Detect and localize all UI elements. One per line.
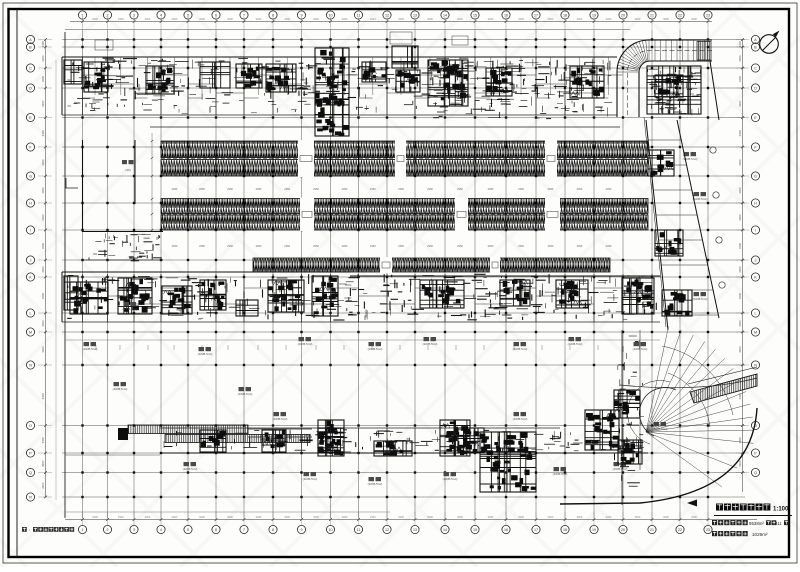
svg-text:(30): (30)	[125, 168, 130, 172]
fan strip core F2	[618, 440, 642, 464]
svg-text:2350: 2350	[518, 187, 524, 191]
svg-text:(1035.5m²): (1035.5m²)	[693, 197, 708, 201]
svg-text:2350: 2350	[577, 244, 583, 248]
svg-text:3300: 3300	[370, 515, 376, 519]
core B9	[556, 280, 588, 308]
svg-text:13: 13	[413, 528, 417, 532]
subtitle line 2	[712, 531, 748, 536]
svg-text:3300: 3300	[41, 292, 45, 299]
svg-text:5: 5	[187, 14, 189, 18]
svg-text:3300: 3300	[284, 17, 290, 21]
svg-text:C: C	[29, 67, 32, 71]
svg-text:3300: 3300	[691, 515, 697, 519]
svg-text:1: 1	[82, 528, 84, 532]
right slanted band	[644, 61, 719, 330]
fan strip clutter	[614, 336, 644, 486]
svg-text:2350: 2350	[342, 187, 348, 191]
svg-text:8: 8	[272, 14, 274, 18]
svg-text:(1035.5m²): (1035.5m²)	[513, 417, 528, 421]
svg-text::: :	[29, 527, 30, 532]
binding margin line	[16, 9, 18, 557]
svg-text:2350: 2350	[284, 244, 290, 248]
svg-text:C: C	[754, 67, 757, 71]
svg-text:3300: 3300	[92, 17, 98, 21]
svg-text:M: M	[754, 331, 757, 335]
svg-text:16: 16	[504, 528, 508, 532]
middle strip wall clutter	[65, 274, 656, 320]
svg-text:3300: 3300	[41, 187, 45, 194]
room labels	[83, 152, 708, 486]
plan left edge wall	[64, 32, 66, 518]
svg-text:21: 21	[650, 14, 654, 18]
core B8	[500, 280, 530, 306]
svg-text:L: L	[755, 312, 757, 316]
svg-text:3300: 3300	[635, 515, 641, 519]
stair core A2	[146, 66, 174, 94]
svg-text:3300: 3300	[256, 515, 262, 519]
svg-text:Q: Q	[754, 471, 757, 475]
svg-text:3300: 3300	[118, 17, 124, 21]
svg-text:3300: 3300	[41, 100, 45, 107]
bottom strip outline	[160, 428, 648, 453]
svg-text:1029m²: 1029m²	[752, 532, 768, 537]
svg-text:J: J	[755, 259, 757, 263]
svg-text:12: 12	[385, 14, 389, 18]
svg-text:3300: 3300	[457, 17, 463, 21]
svg-text:3300: 3300	[41, 266, 45, 273]
svg-text:3300: 3300	[41, 320, 45, 327]
svg-text:3300: 3300	[427, 17, 433, 21]
unit rooms A3b	[236, 64, 262, 88]
small core C1	[318, 420, 344, 456]
fan room label	[122, 160, 134, 172]
svg-text:2350: 2350	[606, 187, 612, 191]
bottom core D3	[318, 428, 344, 452]
unit rooms A6b	[396, 70, 420, 92]
svg-text:3300: 3300	[256, 17, 262, 21]
svg-text:(1035.5m²): (1035.5m²)	[693, 297, 708, 301]
svg-text:6: 6	[215, 528, 217, 532]
fan room walls	[83, 140, 164, 232]
north arrow	[760, 31, 780, 54]
parking band gaps	[298, 140, 560, 273]
svg-text:(1035.5m²): (1035.5m²)	[113, 387, 128, 391]
parking row 2a	[161, 199, 648, 214]
parking row 1a	[161, 141, 648, 158]
top strip unit partitions	[83, 57, 624, 115]
svg-text:3300: 3300	[577, 17, 583, 21]
svg-text:19: 19	[592, 14, 596, 18]
svg-text:3300: 3300	[227, 515, 233, 519]
svg-text:3300: 3300	[606, 17, 612, 21]
svg-text:(1035.5m²): (1035.5m²)	[553, 472, 568, 476]
middle strip outline	[62, 272, 660, 322]
svg-text:2350: 2350	[398, 244, 404, 248]
bottom core D4	[458, 428, 484, 452]
svg-text:2350: 2350	[577, 187, 583, 191]
svg-text:3300: 3300	[738, 75, 742, 82]
outer road curve	[560, 408, 757, 507]
svg-text:3300: 3300	[738, 393, 742, 400]
grid bubbles right	[751, 35, 759, 476]
small core C3	[440, 420, 470, 456]
svg-text:3300: 3300	[41, 346, 45, 353]
small rooms above strip	[95, 32, 468, 50]
top dimension line	[65, 17, 712, 30]
svg-text:22: 22	[678, 528, 682, 532]
svg-text:18: 18	[563, 14, 567, 18]
stair core A4	[266, 64, 296, 92]
svg-text:H: H	[754, 202, 757, 206]
svg-text:6: 6	[215, 14, 217, 18]
svg-text:3300: 3300	[518, 515, 524, 519]
svg-text:3300: 3300	[738, 242, 742, 249]
svg-text:3300: 3300	[41, 41, 45, 48]
subtitle line 1	[712, 520, 748, 525]
svg-text:(1035.5m²): (1035.5m²)	[653, 427, 668, 431]
svg-text:3300: 3300	[145, 515, 151, 519]
svg-text:I: I	[755, 229, 756, 233]
svg-text:9: 9	[301, 14, 303, 18]
svg-text:23: 23	[706, 14, 710, 18]
parking row 1b	[161, 160, 648, 177]
core B7	[420, 280, 464, 308]
right band bubbles	[710, 147, 725, 288]
svg-text:3300: 3300	[635, 17, 641, 21]
parking dimension text rows	[172, 187, 612, 248]
svg-text:3300: 3300	[738, 130, 742, 137]
grid bubbles left	[26, 35, 34, 501]
parking row 3	[253, 258, 610, 272]
svg-text:2: 2	[107, 528, 109, 532]
top right inner core	[655, 75, 683, 97]
svg-text:3300: 3300	[398, 17, 404, 21]
top right block rooms	[647, 66, 701, 114]
middle strip partitions	[83, 274, 653, 322]
fan concentric arc segments	[662, 346, 733, 427]
svg-text:3300: 3300	[41, 482, 45, 489]
svg-text:3300: 3300	[199, 515, 205, 519]
unit rooms A5	[362, 62, 386, 82]
svg-text:3: 3	[133, 14, 135, 18]
svg-text:2350: 2350	[199, 187, 205, 191]
central tower	[315, 48, 349, 136]
small rooms C5	[236, 300, 258, 316]
svg-text:3300: 3300	[41, 214, 45, 221]
svg-text:M: M	[29, 331, 32, 335]
svg-text:2350: 2350	[457, 244, 463, 248]
svg-text:2350: 2350	[313, 244, 319, 248]
svg-text:17: 17	[534, 528, 538, 532]
svg-text:2350: 2350	[227, 187, 233, 191]
svg-text:3300: 3300	[172, 515, 178, 519]
fan long radials to corner	[646, 432, 737, 487]
svg-text:23: 23	[706, 528, 710, 532]
stair core A1	[84, 62, 108, 92]
svg-text:2350: 2350	[548, 244, 554, 248]
right band rooms	[648, 140, 718, 315]
svg-text:3300: 3300	[738, 266, 742, 273]
svg-text:3300: 3300	[738, 55, 742, 62]
core B6	[312, 276, 338, 316]
svg-text:(1035.5m²): (1035.5m²)	[83, 347, 98, 351]
left dimension line	[38, 38, 56, 500]
fan radial lines	[646, 326, 754, 443]
svg-text:2350: 2350	[256, 244, 262, 248]
svg-text:(1035.5m²): (1035.5m²)	[443, 477, 458, 481]
svg-text:311: 311	[775, 521, 782, 526]
svg-text:19: 19	[592, 528, 596, 532]
svg-text:2350: 2350	[548, 187, 554, 191]
svg-text:5: 5	[187, 528, 189, 532]
svg-text:9: 9	[301, 528, 303, 532]
small core C2	[374, 441, 412, 456]
svg-text:(1035.5m²): (1035.5m²)	[123, 307, 138, 311]
svg-text:N: N	[29, 364, 32, 368]
bottom dimension line	[65, 512, 757, 525]
top strip right wall clutter	[430, 61, 610, 119]
parking row 2b	[161, 215, 648, 230]
svg-text:21: 21	[650, 528, 654, 532]
svg-text:3300: 3300	[606, 515, 612, 519]
svg-text:G: G	[754, 175, 757, 179]
svg-text:18: 18	[563, 528, 567, 532]
svg-text:3300: 3300	[577, 515, 583, 519]
svg-text:(1035.5m²): (1035.5m²)	[613, 467, 628, 471]
svg-text:20: 20	[621, 528, 625, 532]
grid bubbles top	[78, 11, 712, 19]
right dimension line	[736, 38, 749, 492]
svg-text:2350: 2350	[606, 244, 612, 248]
svg-text:2350: 2350	[172, 244, 178, 248]
unit rooms A3	[200, 62, 230, 88]
svg-text:3300: 3300	[145, 17, 151, 21]
svg-text:3300: 3300	[227, 17, 233, 21]
svg-text:2350: 2350	[398, 187, 404, 191]
svg-text:4: 4	[160, 14, 162, 18]
small core C4	[585, 410, 619, 450]
svg-text:Q: Q	[29, 471, 32, 475]
curve hatch rungs	[617, 40, 705, 72]
top strip wall clutter	[63, 58, 611, 100]
svg-text:2350: 2350	[199, 244, 205, 248]
svg-text:3300: 3300	[41, 460, 45, 467]
bottom strip wall clutter	[164, 430, 641, 452]
svg-text:(1035.5m²): (1035.5m²)	[513, 347, 528, 351]
svg-text:14: 14	[443, 528, 447, 532]
svg-text:3300: 3300	[738, 214, 742, 221]
entry block A6	[392, 46, 418, 68]
svg-text:3300: 3300	[199, 17, 205, 21]
svg-text:3300: 3300	[92, 515, 98, 519]
core B5	[268, 280, 304, 312]
svg-text:3300: 3300	[41, 242, 45, 249]
bottom core D1	[200, 430, 226, 452]
svg-text:3300: 3300	[738, 346, 742, 353]
long staircase ramp	[118, 425, 312, 443]
svg-text:D: D	[29, 87, 32, 91]
svg-text:J: J	[30, 259, 32, 263]
svg-text:2350: 2350	[488, 244, 494, 248]
svg-text:G: G	[29, 175, 32, 179]
core B10	[622, 278, 654, 314]
grid bubbles bottom	[78, 525, 712, 533]
svg-text:2350: 2350	[172, 187, 178, 191]
svg-text:3300: 3300	[738, 100, 742, 107]
svg-text:2350: 2350	[427, 187, 433, 191]
svg-text:D: D	[754, 87, 757, 91]
svg-text:1: 1	[82, 14, 84, 18]
core B1	[70, 282, 108, 314]
svg-text:H: H	[29, 202, 32, 206]
svg-text:3300: 3300	[548, 515, 554, 519]
svg-text:3300: 3300	[370, 17, 376, 21]
svg-text:3300: 3300	[738, 41, 742, 48]
svg-text:R: R	[29, 496, 32, 500]
svg-text:3300: 3300	[41, 393, 45, 400]
svg-text:22: 22	[678, 14, 682, 18]
svg-text:3300: 3300	[738, 437, 742, 444]
svg-text:3300: 3300	[427, 515, 433, 519]
svg-text:3300: 3300	[118, 515, 124, 519]
stair core A9	[570, 66, 604, 98]
top building strip outline	[62, 57, 620, 127]
svg-text:2: 2	[107, 14, 109, 18]
svg-text:10: 10	[329, 528, 333, 532]
fan strip core F1	[614, 390, 640, 418]
right band core E1	[648, 150, 674, 176]
svg-text:(1035.5m²): (1035.5m²)	[303, 477, 318, 481]
svg-text:3300: 3300	[41, 55, 45, 62]
svg-text:3300: 3300	[738, 159, 742, 166]
svg-text:2350: 2350	[518, 244, 524, 248]
svg-text:2350: 2350	[457, 187, 463, 191]
svg-text:3: 3	[133, 528, 135, 532]
svg-text:3300: 3300	[41, 437, 45, 444]
core B4	[200, 280, 226, 310]
svg-text:3300: 3300	[398, 515, 404, 519]
svg-text:2350: 2350	[342, 244, 348, 248]
svg-text:3300: 3300	[41, 75, 45, 82]
svg-text:1:100: 1:100	[773, 507, 789, 513]
svg-text:14: 14	[443, 14, 447, 18]
column grid lines	[62, 30, 745, 518]
svg-text:3300: 3300	[663, 515, 669, 519]
level mark	[66, 178, 78, 188]
svg-text:3300: 3300	[488, 515, 494, 519]
right band core E3	[662, 290, 692, 316]
fan arcs	[620, 378, 757, 444]
svg-text:3300: 3300	[457, 515, 463, 519]
svg-text:2350: 2350	[256, 187, 262, 191]
misc interior walls	[65, 340, 660, 455]
svg-text:(1035.5m²): (1035.5m²)	[183, 467, 198, 471]
svg-text:13: 13	[413, 14, 417, 18]
svg-text:3300: 3300	[518, 17, 524, 21]
svg-text:15: 15	[473, 14, 477, 18]
svg-text:15: 15	[473, 528, 477, 532]
stair core A7	[428, 60, 468, 106]
parking aisle dashes	[161, 157, 648, 159]
svg-text:2350: 2350	[370, 244, 376, 248]
svg-text:7: 7	[243, 528, 245, 532]
svg-text:2350: 2350	[284, 187, 290, 191]
svg-text:8: 8	[272, 528, 274, 532]
svg-text:3300: 3300	[313, 17, 319, 21]
svg-text:3300: 3300	[488, 17, 494, 21]
svg-text:2350: 2350	[370, 187, 376, 191]
svg-text:2350: 2350	[227, 244, 233, 248]
svg-text:17: 17	[534, 14, 538, 18]
stair core A8	[486, 68, 512, 96]
core B3	[162, 286, 192, 314]
corner unit A0	[64, 60, 82, 84]
right band core E2	[655, 230, 683, 256]
bottom strip partitions	[188, 428, 623, 453]
svg-text:3300: 3300	[172, 17, 178, 21]
svg-text:3300: 3300	[548, 17, 554, 21]
svg-text:3300: 3300	[313, 515, 319, 519]
svg-text:(1035.5m²): (1035.5m²)	[238, 392, 253, 396]
svg-text:2350: 2350	[488, 187, 494, 191]
svg-text:2350: 2350	[313, 187, 319, 191]
svg-text:L: L	[30, 312, 32, 316]
bottom-left note	[22, 527, 27, 532]
svg-text:3300: 3300	[738, 292, 742, 299]
svg-text:3300: 3300	[342, 17, 348, 21]
fan hatched ramp band	[688, 367, 757, 403]
svg-text:3300: 3300	[342, 515, 348, 519]
svg-text:(1035.5m²): (1035.5m²)	[368, 347, 383, 351]
left rooms under fan room	[89, 234, 162, 261]
svg-text:O: O	[29, 424, 32, 428]
svg-text:3300: 3300	[663, 17, 669, 21]
svg-text:(1035.5m²): (1035.5m²)	[368, 482, 383, 486]
structural columns	[81, 38, 709, 498]
parking bay separators	[188, 141, 623, 272]
svg-text:3300: 3300	[41, 159, 45, 166]
drawing title	[716, 504, 770, 511]
svg-text:11: 11	[357, 528, 361, 532]
svg-text:20: 20	[621, 14, 625, 18]
svg-text:3300: 3300	[738, 187, 742, 194]
svg-text:3300: 3300	[284, 515, 290, 519]
svg-text:11: 11	[357, 14, 361, 18]
bottom core D2	[262, 430, 286, 452]
svg-text:(1035.5m²): (1035.5m²)	[273, 417, 288, 421]
svg-text:10: 10	[329, 14, 333, 18]
svg-text:12: 12	[385, 528, 389, 532]
svg-text:(1035.5m²): (1035.5m²)	[298, 342, 313, 346]
ramp entrance grating	[697, 42, 711, 61]
top right curved road	[617, 40, 712, 117]
svg-text:I: I	[30, 229, 31, 233]
svg-text:(1035.5m²): (1035.5m²)	[198, 352, 213, 356]
interior dim chain	[151, 133, 154, 232]
fan vertical strip	[622, 330, 640, 505]
svg-text:3300: 3300	[691, 17, 697, 21]
svg-text:2350: 2350	[427, 244, 433, 248]
corner unit B0	[64, 276, 78, 310]
bottom core D5	[480, 432, 536, 492]
svg-text:3300: 3300	[738, 320, 742, 327]
svg-text:9538m²: 9538m²	[749, 521, 764, 526]
svg-text:(1035.5m²): (1035.5m²)	[423, 342, 438, 346]
title underline	[714, 515, 792, 517]
core B2	[118, 278, 152, 314]
svg-text:16: 16	[504, 14, 508, 18]
svg-text:4: 4	[160, 528, 162, 532]
